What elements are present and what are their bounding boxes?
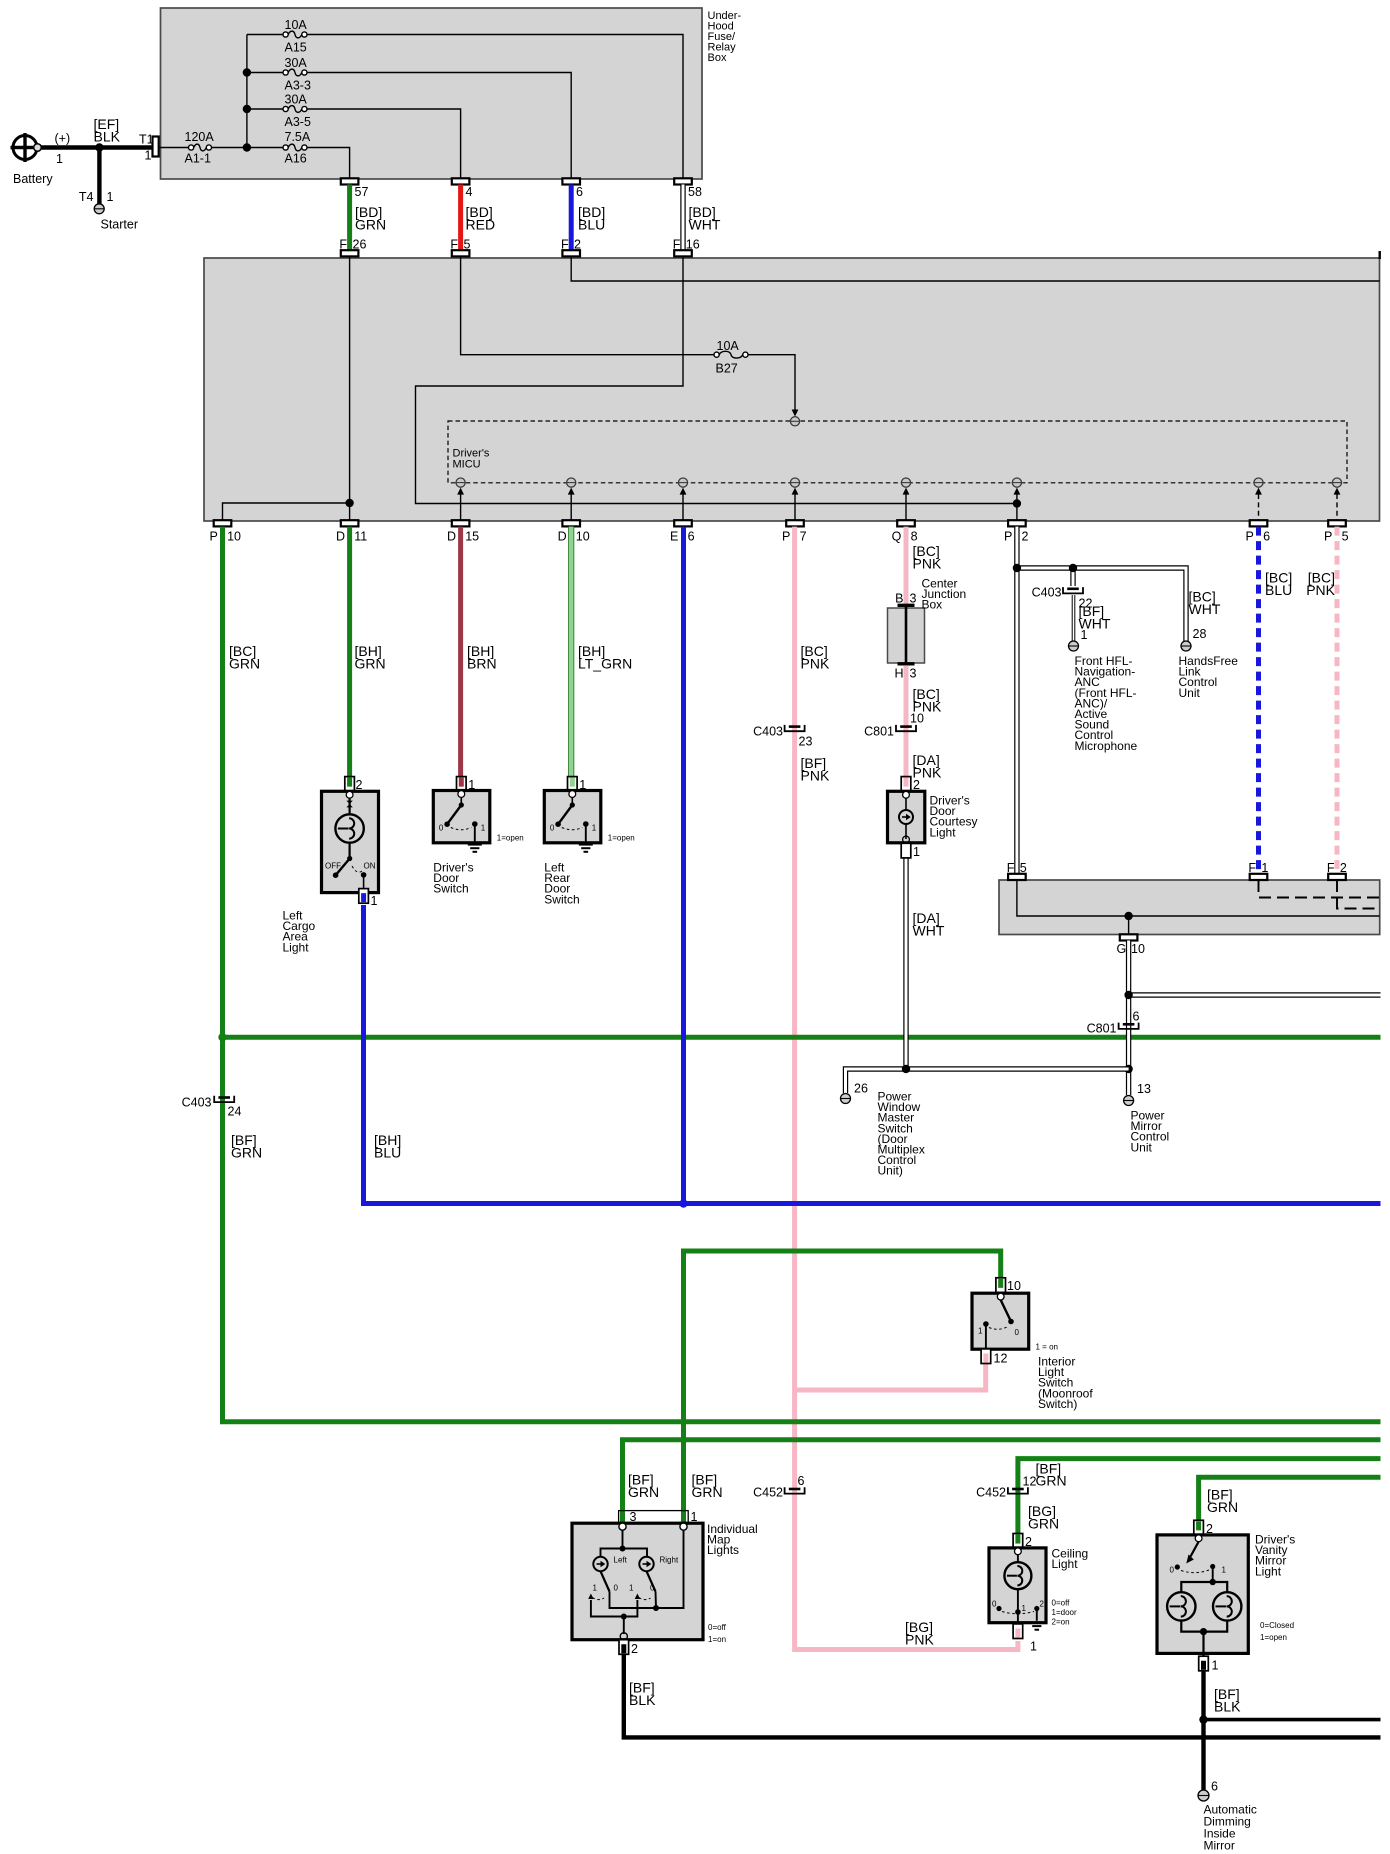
svg-text:10: 10 <box>1131 942 1145 956</box>
wire to starter <box>97 148 101 204</box>
wire A16 to pin 57 <box>307 148 350 179</box>
svg-text:PNK: PNK <box>913 556 942 572</box>
wire WHT P2 to F5 <box>1014 527 1019 874</box>
box2 connector P 2 <box>1008 520 1026 526</box>
svg-text:1: 1 <box>371 894 378 908</box>
svg-text:Unit: Unit <box>1131 1140 1153 1154</box>
wire [BH] BRN D15 to door switch <box>458 527 463 784</box>
svg-text:BRN: BRN <box>467 656 497 672</box>
svg-text:Lights: Lights <box>707 1543 739 1557</box>
svg-text:12: 12 <box>994 1352 1008 1366</box>
svg-text:1: 1 <box>593 1584 598 1593</box>
svg-text:1: 1 <box>1030 1640 1037 1654</box>
wire F5 to G10 inside box3 <box>1017 880 1380 916</box>
svg-text:0=off: 0=off <box>1052 1599 1071 1608</box>
map light left lamp <box>593 1557 607 1571</box>
svg-text:WHT: WHT <box>689 217 721 233</box>
wire [BF] BLK map lights pin2 ground bus <box>624 1655 1381 1738</box>
left rear door switch <box>568 777 578 792</box>
fuse A3-3 30A row <box>247 72 283 74</box>
svg-text:LT_GRN: LT_GRN <box>578 656 632 672</box>
box1 pin 4 <box>452 178 470 184</box>
svg-text:MICU: MICU <box>453 459 481 471</box>
svg-text:H: H <box>894 667 903 681</box>
svg-text:A1-1: A1-1 <box>185 152 211 166</box>
junction A3-3 row <box>243 68 251 76</box>
svg-text:Unit): Unit) <box>878 1164 903 1178</box>
svg-text:PNK: PNK <box>801 656 830 672</box>
svg-text:ON: ON <box>364 862 376 871</box>
svg-text:2: 2 <box>1022 530 1029 544</box>
box2 connector D 15 <box>452 520 470 526</box>
svg-text:8: 8 <box>911 530 918 544</box>
junction node battery/starter <box>95 143 103 151</box>
svg-text:A3-5: A3-5 <box>285 115 311 129</box>
wire [BC]/[BF] GRN P10 branch <box>223 527 1381 1422</box>
svg-text:A15: A15 <box>285 41 307 55</box>
svg-text:7: 7 <box>800 530 807 544</box>
MICU pin drop Q 8 <box>905 494 907 520</box>
svg-text:0: 0 <box>992 1600 997 1609</box>
svg-text:BLU: BLU <box>1265 582 1292 598</box>
svg-text:1: 1 <box>1081 628 1088 642</box>
svg-text:A3-3: A3-3 <box>285 79 311 93</box>
svg-text:Switch: Switch <box>433 882 468 896</box>
svg-text:57: 57 <box>355 185 369 199</box>
fuse B27 10A <box>714 352 719 357</box>
svg-text:0=off: 0=off <box>708 1623 727 1632</box>
svg-text:BLK: BLK <box>1214 1699 1241 1715</box>
svg-text:PNK: PNK <box>801 768 830 784</box>
svg-text:B27: B27 <box>716 362 738 376</box>
junction G10 <box>1124 912 1132 920</box>
svg-text:PNK: PNK <box>1306 582 1335 598</box>
box2 top-right edge stub <box>1378 251 1380 259</box>
svg-text:PNK: PNK <box>905 1632 934 1648</box>
white branch to right edge <box>1129 992 1381 997</box>
driver's door courtesy light <box>901 777 911 792</box>
box2 connector P 6 <box>1250 520 1268 526</box>
box1 pin 58 <box>674 178 692 184</box>
svg-text:D: D <box>336 530 345 544</box>
individual map lights <box>572 1523 703 1640</box>
junction A3-5 row <box>243 105 251 113</box>
svg-text:0: 0 <box>1015 1328 1020 1337</box>
wire PNK center junction box to courtesy light <box>904 666 909 784</box>
svg-text:26: 26 <box>854 1082 868 1096</box>
box2 connector D 11 <box>341 520 359 526</box>
svg-text:1: 1 <box>481 824 486 833</box>
svg-text:15: 15 <box>465 530 479 544</box>
svg-text:1: 1 <box>1022 1604 1027 1613</box>
wire A1-1 to feed node <box>212 147 247 149</box>
svg-text:C801: C801 <box>864 725 894 739</box>
wire T1 to fuse A1-1 <box>159 147 189 149</box>
dashed wire from F1 inside box3 <box>1259 880 1380 898</box>
svg-text:0: 0 <box>614 1584 619 1593</box>
MICU pin drop D 15 <box>460 494 462 520</box>
svg-text:0: 0 <box>1170 1566 1175 1575</box>
cargo light filament link <box>346 801 352 808</box>
MICU pin drop D 10 <box>570 494 572 520</box>
svg-text:10: 10 <box>576 530 590 544</box>
wire [BC] PNK Q8 to center junction box <box>904 527 909 605</box>
green wire map lights pin1 to moonroof switch pin10 <box>684 1251 1001 1524</box>
svg-text:1=open: 1=open <box>497 834 524 843</box>
wire BLU E6 vertical <box>681 527 686 1204</box>
individual map lights connector housing <box>619 1511 689 1524</box>
svg-text:BLU: BLU <box>578 217 605 233</box>
svg-text:Light: Light <box>283 940 310 954</box>
junction F16/P2 <box>1013 499 1021 507</box>
wire F26 feed inside box2 <box>223 256 350 520</box>
svg-text:30A: 30A <box>285 56 308 70</box>
svg-text:Box: Box <box>922 598 943 612</box>
svg-text:WHT: WHT <box>913 923 945 939</box>
white branch bus to HFL mic and handsfree unit <box>1017 568 1186 642</box>
svg-text:Battery: Battery <box>13 172 53 186</box>
wire [BC]/[BF] PNK P7 vertical <box>795 527 1018 1650</box>
svg-text:RED: RED <box>466 217 496 233</box>
wire [BH] GRN D11 to cargo light <box>347 527 352 784</box>
feed bus vertical <box>246 35 248 148</box>
svg-text:5: 5 <box>1342 530 1349 544</box>
svg-text:10A: 10A <box>285 18 308 32</box>
svg-text:Mirror: Mirror <box>1204 1839 1235 1853</box>
terminal handsfree link control unit pin 28 <box>1181 641 1191 651</box>
terminal HFL microphone pin 1 <box>1069 641 1079 651</box>
svg-text:OFF: OFF <box>325 862 341 871</box>
wire [DA] WHT courtesy light to power window switch bus <box>903 857 908 1070</box>
svg-text:C403: C403 <box>1032 586 1062 600</box>
left cargo area light <box>345 777 355 792</box>
svg-text:1: 1 <box>107 190 114 204</box>
junction F26/P10/D11 <box>345 499 353 507</box>
ceiling light <box>1013 1534 1023 1549</box>
connector C403 pin 22 <box>1063 587 1083 593</box>
svg-text:Light: Light <box>1052 1557 1079 1571</box>
svg-text:11: 11 <box>354 530 367 544</box>
wire [BD] GRN 57 to F26 <box>347 185 352 251</box>
junction courtesy-light ground joins bus <box>902 1065 910 1073</box>
svg-text:28: 28 <box>1193 627 1207 641</box>
vanity switch lever with arrow <box>1191 1542 1199 1557</box>
wire [BD] BLU 6 to F2 <box>569 185 574 251</box>
pink branch to moonroof switch pin 12 <box>795 1360 986 1390</box>
svg-text:3: 3 <box>910 592 917 606</box>
svg-text:2: 2 <box>1040 1600 1045 1609</box>
wire F5 to fuse B27 <box>461 256 714 354</box>
junction black bus <box>1199 1715 1207 1723</box>
svg-text:23: 23 <box>799 735 813 749</box>
svg-text:Light: Light <box>930 825 957 839</box>
wire F16 to P2 inside box2 <box>416 256 1017 503</box>
svg-text:13: 13 <box>1137 1082 1151 1096</box>
MICU top pin circle <box>790 417 799 426</box>
svg-text:GRN: GRN <box>692 1484 723 1500</box>
svg-text:1=door: 1=door <box>1052 1608 1077 1617</box>
wire [BC] PNK P5 dashed to F2 <box>1335 527 1340 874</box>
svg-text:P: P <box>782 530 790 544</box>
junction blue bus E6 <box>679 1199 687 1207</box>
wire WHT G10 to power mirror control unit <box>1126 941 1131 1096</box>
junction white branch <box>1124 991 1132 999</box>
svg-text:GRN: GRN <box>355 656 386 672</box>
green bus C to ceiling light pin 2 <box>1018 1459 1381 1536</box>
svg-text:C403: C403 <box>753 725 783 739</box>
svg-text:0: 0 <box>439 824 444 833</box>
starter terminal T4-1 <box>94 204 104 214</box>
svg-text:1: 1 <box>978 1327 983 1336</box>
map lights pin1 rail <box>610 1530 684 1608</box>
svg-text:BLK: BLK <box>94 129 121 145</box>
svg-text:Box: Box <box>708 52 727 64</box>
wire A3-3 to pin 6 <box>307 73 571 179</box>
wire A15 to pin 58 <box>307 35 683 179</box>
svg-text:3: 3 <box>910 667 917 681</box>
svg-text:WHT: WHT <box>1189 601 1221 617</box>
junction green bus <box>218 1033 226 1041</box>
wire [BC] BLU P6 dashed to F1 <box>1256 527 1261 874</box>
svg-text:1=open: 1=open <box>608 834 635 843</box>
under-dash fuse/relay box (MICU box) <box>204 258 1380 521</box>
connector C403 pin 23 <box>785 725 805 731</box>
map lights pin2 rail <box>591 1600 638 1617</box>
fuse A3-5 30A row <box>247 108 283 110</box>
svg-text:0: 0 <box>650 1584 655 1593</box>
svg-text:12: 12 <box>1023 1475 1037 1489</box>
cargo light bulb <box>335 814 363 842</box>
fuse A15 10A row <box>247 34 283 36</box>
junction P2/mic branch <box>1013 564 1021 572</box>
svg-text:Unit: Unit <box>1179 686 1201 700</box>
svg-text:B: B <box>895 592 903 606</box>
box2 connector P 10 <box>214 520 232 526</box>
connector C452 pin 12 <box>1008 1487 1028 1493</box>
svg-text:1: 1 <box>56 152 63 166</box>
wire [BD] WHT 58 to F16 <box>680 185 685 251</box>
driver's MICU dashed box <box>448 421 1347 483</box>
svg-text:1: 1 <box>913 845 920 859</box>
MICU pin drop P 6 (dashed) <box>1258 494 1260 520</box>
svg-text:T4: T4 <box>79 190 94 204</box>
junction A16 row <box>243 143 251 151</box>
green bus to right edge <box>223 1035 1381 1040</box>
wire [BF] BLK vanity pin1 to mirror <box>1201 1671 1205 1790</box>
svg-text:C801: C801 <box>1087 1022 1117 1036</box>
box2 connector P 7 <box>786 520 804 526</box>
fuse A16 7.5A row <box>247 147 283 149</box>
svg-text:Switch): Switch) <box>1038 1397 1077 1411</box>
MICU pin drop E 6 <box>682 494 684 520</box>
green bus D to vanity mirror light pin 2 <box>1199 1477 1381 1523</box>
connector G10 <box>1120 934 1138 940</box>
svg-text:GRN: GRN <box>1028 1516 1059 1532</box>
svg-text:P: P <box>210 530 218 544</box>
box2 connector E 6 <box>674 520 692 526</box>
box1 pin 57 <box>341 178 359 184</box>
vanity bulbs parallel rails <box>1181 1582 1227 1592</box>
terminal power window master switch pin 26 <box>841 1094 851 1104</box>
svg-text:6: 6 <box>1133 1010 1140 1024</box>
ceiling light ground <box>1030 1622 1044 1624</box>
battery B1 <box>13 136 37 160</box>
wire A3-5 to pin 4 <box>307 109 461 179</box>
driver's door switch <box>457 777 467 792</box>
svg-text:1: 1 <box>145 149 152 163</box>
map light right lamp <box>639 1557 653 1571</box>
svg-text:10: 10 <box>1007 1279 1021 1293</box>
wire [BH] LT_GRN D10 to rear door switch <box>568 527 574 784</box>
svg-text:BLU: BLU <box>374 1145 401 1161</box>
green bus B to map lights pin 3 <box>623 1440 1381 1524</box>
svg-text:E: E <box>670 530 678 544</box>
connector C403 pin 24 <box>214 1096 234 1102</box>
svg-text:1: 1 <box>629 1584 634 1593</box>
svg-text:0: 0 <box>550 824 555 833</box>
MICU pin drop P 2 <box>1016 494 1018 520</box>
svg-text:Starter: Starter <box>101 218 139 232</box>
svg-text:7.5A: 7.5A <box>285 130 311 144</box>
svg-text:1: 1 <box>1212 1659 1219 1673</box>
svg-text:24: 24 <box>228 1105 242 1119</box>
MICU pin drop P 7 <box>794 494 796 520</box>
driver's door wire-harness box <box>999 880 1380 935</box>
svg-text:P: P <box>1004 530 1012 544</box>
svg-text:0=Closed: 0=Closed <box>1260 1621 1294 1630</box>
wire [BH] BLU from cargo light pin1 <box>364 905 1381 1204</box>
svg-text:GRN: GRN <box>229 656 260 672</box>
svg-text:1 = on: 1 = on <box>1036 1343 1058 1352</box>
ceiling light switch <box>1017 1589 1019 1612</box>
svg-text:58: 58 <box>688 185 702 199</box>
svg-text:Microphone: Microphone <box>1075 739 1138 753</box>
svg-text:1=open: 1=open <box>1260 1633 1287 1642</box>
svg-text:GRN: GRN <box>1036 1473 1067 1489</box>
svg-text:10: 10 <box>227 530 241 544</box>
arrow into MICU top pin <box>792 410 799 417</box>
svg-text:BLK: BLK <box>629 1692 656 1708</box>
terminal power mirror control unit pin 13 <box>1124 1096 1134 1106</box>
interior light switch (moonroof switch) <box>996 1278 1006 1293</box>
wire F2 bus inside box2 <box>571 256 1379 281</box>
svg-text:6: 6 <box>798 1474 805 1488</box>
wire [BD] RED 4 to F5 <box>458 185 463 251</box>
svg-text:D: D <box>447 530 456 544</box>
map light right switch <box>647 1571 656 1591</box>
svg-text:GRN: GRN <box>1207 1499 1238 1515</box>
svg-text:D: D <box>558 530 567 544</box>
dashed wire from F2 inside box3 <box>1337 880 1380 909</box>
svg-text:6: 6 <box>576 185 583 199</box>
vanity right bulb <box>1213 1592 1241 1620</box>
map lights internal feed <box>622 1530 624 1549</box>
map light left switch <box>601 1571 610 1591</box>
svg-text:C452: C452 <box>753 1486 783 1500</box>
svg-text:2: 2 <box>631 1642 638 1656</box>
box1 pin 6 <box>562 178 580 184</box>
under-hood fuse/relay box <box>161 8 703 179</box>
MICU pin drop P 5 (dashed) <box>1336 494 1338 520</box>
terminal automatic dimming mirror pin 6 <box>1198 1790 1209 1801</box>
svg-text:1=on: 1=on <box>708 1635 726 1644</box>
svg-text:10: 10 <box>910 712 924 726</box>
svg-text:Q: Q <box>892 530 902 544</box>
svg-text:4: 4 <box>466 185 473 199</box>
svg-text:6: 6 <box>1263 530 1270 544</box>
svg-text:(+): (+) <box>55 132 71 146</box>
svg-text:GRN: GRN <box>231 1145 262 1161</box>
svg-text:10A: 10A <box>717 339 740 353</box>
svg-text:30A: 30A <box>285 93 308 107</box>
wire B27 to MICU pin <box>748 355 795 411</box>
svg-text:6: 6 <box>688 530 695 544</box>
svg-text:Right: Right <box>660 1556 679 1565</box>
svg-text:P: P <box>1246 530 1254 544</box>
ceiling light bulb <box>1004 1562 1031 1589</box>
white bus to power window master switch <box>846 1069 1129 1093</box>
box2 connector Q 8 <box>897 520 915 526</box>
svg-text:Left: Left <box>614 1556 628 1565</box>
svg-text:C403: C403 <box>182 1096 212 1110</box>
svg-text:C452: C452 <box>976 1486 1006 1500</box>
vanity left bulb <box>1167 1592 1195 1620</box>
svg-text:1: 1 <box>592 824 597 833</box>
junction power-window bus <box>1124 1065 1132 1073</box>
connector C452 pin 6 <box>785 1487 805 1493</box>
svg-text:120A: 120A <box>185 130 215 144</box>
svg-text:A16: A16 <box>285 152 307 166</box>
driver's vanity mirror light <box>1194 1520 1204 1535</box>
svg-text:P: P <box>1324 530 1332 544</box>
svg-text:Switch: Switch <box>544 892 579 906</box>
svg-text:6: 6 <box>1211 1780 1218 1794</box>
cargo light switch <box>349 843 351 859</box>
fuse A1-1 120A <box>189 145 194 150</box>
svg-text:GRN: GRN <box>355 217 386 233</box>
junction mic branch <box>1069 564 1077 572</box>
svg-text:G: G <box>1116 942 1126 956</box>
box2 connector D 10 <box>562 520 580 526</box>
box2 connector P 5 <box>1328 520 1346 526</box>
svg-text:Light: Light <box>1255 1564 1282 1578</box>
svg-text:2=on: 2=on <box>1052 1618 1070 1627</box>
svg-text:1: 1 <box>1222 1566 1227 1575</box>
wire battery to T1 [EF] BLK <box>41 145 153 149</box>
svg-text:GRN: GRN <box>628 1484 659 1500</box>
